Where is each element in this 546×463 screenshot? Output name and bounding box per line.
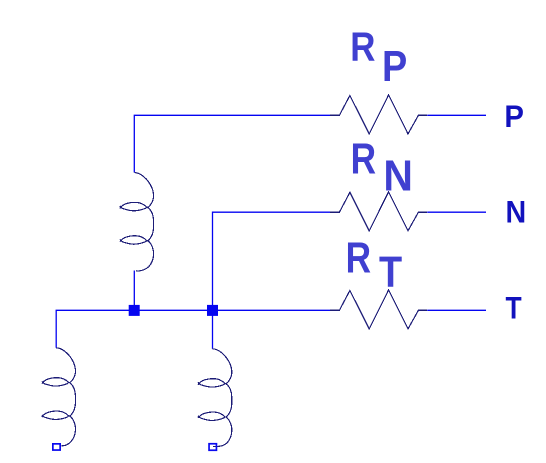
wire net N left segment	[213, 212, 331, 310]
resistor RT	[330, 290, 427, 329]
wire inductor L1 to bus	[133, 271, 135, 311]
junction node 2	[207, 305, 218, 316]
svg-text:T: T	[379, 247, 402, 296]
resistor RP	[330, 95, 427, 134]
wire net P right segment	[427, 114, 486, 116]
wire net N right segment	[427, 211, 486, 213]
svg-text:N: N	[383, 152, 413, 201]
svg-text:T: T	[506, 291, 522, 326]
svg-text:R: R	[350, 25, 375, 70]
junction node 1	[129, 305, 140, 316]
terminal square X3	[209, 444, 216, 451]
wire bus bottom	[56, 310, 330, 348]
inductor L2	[42, 348, 76, 446]
label RT	[346, 234, 403, 296]
resistor RN	[330, 192, 427, 231]
label RP	[350, 25, 407, 91]
svg-text:R: R	[346, 234, 371, 282]
svg-text:R: R	[351, 135, 376, 183]
inductor L1	[120, 173, 154, 272]
wire net P left segment	[134, 115, 330, 172]
inductor L3	[198, 349, 232, 447]
terminal square X2	[53, 444, 60, 450]
wire net T right segment	[427, 309, 486, 311]
wire junction 2 down to inductor L3	[212, 310, 214, 349]
svg-text:P: P	[504, 99, 524, 134]
label RN	[351, 135, 413, 201]
svg-text:P: P	[382, 41, 407, 90]
svg-text:N: N	[506, 195, 527, 230]
